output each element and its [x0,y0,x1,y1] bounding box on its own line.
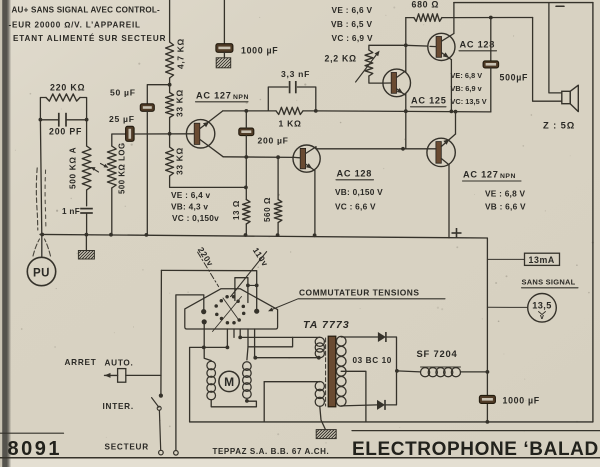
wire primary top feed [240,336,319,338]
transistor AC128 mid base lead [294,156,300,158]
wire emitter line AC127 [223,156,294,159]
label 500 K&#937; LOG [118,142,127,194]
transformer primary lower coil [315,382,324,407]
voltage text AC128 mid [335,187,383,212]
label 110V [251,246,271,269]
wire secondary bottom to diode [341,405,377,406]
resistor 680 &#937; [414,14,442,22]
svg-text:NPN: NPN [500,173,516,180]
label INTER [103,402,134,411]
label 680 &#937; [412,0,440,10]
wire choke right [461,371,488,373]
wire pot 500KA bottom [86,190,88,206]
wire AC128 top collector riser [453,3,455,34]
svg-text:VB: 6,9 v: VB: 6,9 v [451,84,483,93]
node pot LOG bus junction [109,233,113,237]
label 500 K&#937; A [69,147,78,189]
wire 560 to bus [277,223,279,236]
transistor AC127 emitter lead [200,140,223,157]
wire PU cable vertical [40,120,41,257]
transistor AC128 mid emitter lead [306,164,315,171]
wire right frame drop [592,3,594,422]
chassis ground 1000uF top [216,58,231,68]
wire 3.3nF stub left [268,87,288,111]
wire 220V dash-dot [198,252,219,287]
wire selector feed top [161,270,256,311]
svg-text:ELECTROPHONE ‘BALAD: ELECTROPHONE ‘BALAD [352,439,599,460]
svg-text:33 KΩ: 33 KΩ [175,89,185,117]
transistor AC128 top emitter arrow [443,52,449,57]
capacitor 25 uF electrolytic [126,126,135,141]
capacitor 500 uF electrolytic [483,61,499,68]
svg-text:VC : 6,6 V: VC : 6,6 V [335,202,376,212]
node input right [85,118,89,122]
svg-text:VB : 6,5 V: VB : 6,5 V [331,19,372,29]
label 220V [196,245,216,268]
wire 4.7K to 33K [169,78,171,93]
wire 1nF to bus [86,214,88,235]
commutateur wiper diagonal 2 [223,298,240,321]
node base divider AC127 [168,132,172,136]
commutateur inner link [246,284,259,288]
svg-text:AU+ SANS SIGNAL AVEC CONTROL-: AU+ SANS SIGNAL AVEC CONTROL- [12,6,161,15]
label 25 &#181;F [109,114,135,124]
choke SF 7204 [421,368,461,377]
transformer chassis ground [316,430,336,439]
svg-text:03 BC 10: 03 BC 10 [353,356,392,365]
label ARRET AUTO [65,358,134,368]
wire main bus [40,234,449,237]
wire 8091 box line [0,432,64,434]
svg-text:AUTO.: AUTO. [105,359,134,368]
svg-text:500 KΩ A: 500 KΩ A [69,147,78,189]
shield flare right at PU [45,239,51,256]
label 1 K&#937; [279,119,302,129]
wire 13mA tap [487,258,524,260]
wire bottom return [190,421,593,423]
note text line 3 [13,34,166,43]
node AC128 top emitter rail junction [450,110,454,114]
label AC 127 NPN output [463,170,522,182]
label AC 128 top [459,40,497,51]
label 2,2 K&#937; [325,54,357,64]
capacitor 1000 uF top [216,44,233,53]
label 33 K&#937; lower [175,147,185,175]
transformer secondary coil [336,336,346,406]
wire 33K upper to base node [169,118,171,135]
label 200 &#181;F [258,136,289,146]
svg-text:4,7 KΩ: 4,7 KΩ [176,38,186,69]
transistor AC128 top circle [428,33,455,60]
wire 25uF to pot LOG [112,134,125,146]
svg-text:Z : 5Ω: Z : 5Ω [543,120,575,131]
svg-text:COMMUTATEUR TENSIONS: COMMUTATEUR TENSIONS [299,288,419,298]
node AC125 rail junction [404,109,408,113]
node AC125 driver base junction [401,147,405,151]
svg-text:AC 128: AC 128 [337,169,373,179]
svg-text:500µF: 500µF [500,73,529,83]
ground bus chassis ground [78,251,94,260]
wire diode top to riser [386,337,396,371]
note text line 2 [9,21,141,30]
wire 560 top stub [277,157,279,199]
svg-text:VE : 6,4 v: VE : 6,4 v [171,190,211,200]
commutateur label leader [268,299,298,312]
voltage text AC127 output block [485,189,526,212]
transistor AC127 base bar [194,123,200,144]
switch arret auto symbol [105,369,126,383]
transistor AC125 emitter lead [397,89,406,95]
transistor AC127 first stage circle [186,120,214,148]
node 50uF junction [168,83,172,87]
wire base node to 33K lower [169,134,171,147]
node 560 top junction [276,155,280,159]
svg-text:SANS SIGNAL: SANS SIGNAL [522,278,576,287]
svg-text:VB : 6,6 V: VB : 6,6 V [485,202,526,212]
wire motor right coil feed [247,347,248,360]
resistor 13 &#937; [243,200,251,225]
resistor 220 K&#937; [46,94,80,101]
svg-text:25 µF: 25 µF [109,114,135,124]
wire 3.3nF stub right [297,87,315,111]
terminal secteur left [159,450,164,455]
svg-text:1000 µF: 1000 µF [503,396,540,406]
wire pot 2.2K top elbow [369,45,406,50]
resistor 560 &#937; [274,200,282,223]
wire top rail [454,2,593,4]
svg-text:M: M [224,375,234,389]
transistor AC127 output circle [427,138,455,166]
svg-text:VE : 6,8 V: VE : 6,8 V [485,189,526,199]
wire selector drop a to motor [204,346,228,348]
svg-text:33 KΩ: 33 KΩ [175,147,185,175]
wire speaker feed from top rail [549,3,562,93]
svg-text:200 PF: 200 PF [49,127,82,137]
wire selector drop c [254,329,256,358]
label AC 127 NPN first stage [196,91,249,102]
svg-text:NPN: NPN [233,94,249,101]
wire 680 left elbow [406,17,414,19]
wire bus extension to filter [449,238,487,372]
commutateur contact dots [214,295,245,325]
svg-text:v: v [540,314,544,321]
wire selector drop d to motor coil [248,329,293,347]
label Z : 5 ohm [543,120,575,131]
node selector drop a [226,346,230,350]
wire selector drop b2 [239,329,241,337]
pot 500KA wiper arrow [91,167,99,172]
svg-text:VB: 4,3 v: VB: 4,3 v [171,202,208,212]
wire electrophone top line [352,430,600,432]
commutateur inner U [235,278,248,303]
wire selector drop a [226,329,228,347]
shield dashes left of PU cable [36,168,46,230]
label 1000 uF top [241,46,278,56]
transistor AC125 collector lead [397,71,406,78]
commutateur left terminals [201,309,207,324]
potentiometer 500 K&#937; A [82,146,91,190]
wire 680 right to collector riser [442,17,454,19]
transistor AC128 top base lead [430,45,436,47]
svg-text:TA 7773: TA 7773 [303,319,350,331]
transistor AC127 output collector arrow [443,139,449,145]
node pot top junction [404,43,408,47]
wire 13ohm top stub [245,187,247,199]
svg-text:560 Ω: 560 Ω [263,197,272,222]
wire primary upper bottom tap [255,357,319,359]
svg-text:1000 µF: 1000 µF [241,46,278,56]
capacitor 1000 uF filter [479,395,495,403]
label minus speaker [556,5,564,7]
node AC127 output collector rail junction [454,110,458,114]
wire 13ohm to bus [245,224,247,235]
meter text [532,301,551,322]
svg-text:-EUR 20000 Ω/V. L’APPAREIL: -EUR 20000 Ω/V. L’APPAREIL [9,21,141,30]
wire AC128 mid emitter to bus [314,171,316,236]
wire secteur right riser [176,295,204,451]
capacitor 3,3 nF [290,81,296,93]
svg-text:TEPPAZ S.A. B.B. 67 A.CH.: TEPPAZ S.A. B.B. 67 A.CH. [213,447,330,456]
node AC128 mid emitter bus junction [313,233,317,237]
capacitor 200 PF [59,113,66,127]
wire primary lower drop [263,382,265,422]
wire pot LOG to bus [111,188,113,235]
commutateur wiper diagonal 1 [213,297,242,332]
svg-text:13,5: 13,5 [532,301,551,311]
svg-text:2,2 KΩ: 2,2 KΩ [325,54,357,64]
resistor 33 K&#937; upper [166,93,174,118]
label PU [33,268,50,280]
label 03 BC10 [353,356,392,365]
wire AC125 collector riser [405,18,407,149]
wire selector left terminal drop [204,322,211,361]
wire 4.7K top feed [169,0,171,42]
wire bottom edge line [0,457,600,459]
transistor AC128 top emitter lead [442,53,452,60]
label 4,7 K&#937; [176,38,186,69]
transistor AC125 emitter arrow [397,88,403,93]
label 13 &#937; [232,200,241,220]
wire arret auto to riser [126,374,161,376]
wire primary ground stem [320,406,326,429]
label plus bus [452,228,462,238]
svg-text:PU: PU [33,268,50,280]
node PU cable / bus junction [40,233,44,237]
transistor AC128 mid collector lead [306,147,316,154]
wire motor coils bottom U [211,400,256,407]
svg-text:VC: 13,5 V: VC: 13,5 V [451,97,487,106]
label 13mA box [525,253,560,265]
wire cap 200PF right stub [67,119,87,121]
wire 50uF top elbow [147,85,169,104]
svg-text:VB: 0,150 V: VB: 0,150 V [335,187,383,197]
node choke left junction [395,369,399,373]
capacitor 200 uF electrolytic [239,128,254,136]
wire AC128 top emitter drop [450,60,452,112]
potentiometer 500 K&#937; LOG [107,146,116,188]
wire driver rail y111 [316,111,491,112]
svg-text:AC 125: AC 125 [411,96,447,106]
wire cap 200PF left stub [40,119,57,121]
svg-text:VC : 0,150v: VC : 0,150v [172,213,219,223]
wire collector rail AC127 [223,110,276,112]
voltage text AC125 block [451,71,487,106]
transistor AC128 mid emitter arrow [306,163,312,168]
svg-text:1 nF: 1 nF [62,207,80,216]
commutateur right terminal [254,309,259,314]
svg-text:220 KΩ: 220 KΩ [50,83,85,93]
transistor AC127 collector lead [200,111,223,129]
wire output rail to speaker top [454,17,533,19]
label 8091 [8,438,63,460]
node 50uF bus junction [145,233,149,237]
transistor AC128 mid base bar [300,148,305,168]
label 3,3 nF [281,69,310,79]
resistor 33 K&#937; lower [166,147,174,176]
switch inter pivot [157,406,161,410]
motor left coil [207,361,216,400]
svg-text:VE: 6,8 V: VE: 6,8 V [451,71,483,80]
switch inter lever [152,398,159,408]
transistor AC128 top collector lead [442,34,454,42]
terminal secteur right [174,451,179,456]
wire primary lower top feed [264,381,320,383]
wire diode bottom to riser [386,371,397,405]
label 200 PF [49,127,82,137]
svg-text:ETANT ALIMENTÉ SUR SECTEUR: ETANT ALIMENTÉ SUR SECTEUR [13,34,166,43]
svg-text:SF 7204: SF 7204 [417,348,458,359]
svg-text:AC 127: AC 127 [463,170,499,180]
commutateur outline [185,289,278,329]
wire pot 2.2K bottom elbow [369,76,383,83]
diode top 0.3BC10 [378,332,386,342]
wire choke left [397,371,421,372]
node 13 ohm top [244,186,248,190]
wire speaker drop right [533,18,562,102]
transistor AC125 base lead [383,82,391,84]
svg-text:VC : 6,9 V: VC : 6,9 V [332,33,373,43]
svg-text:200 µF: 200 µF [258,136,289,146]
node inter switch top contact [159,394,163,398]
label ELECTROPHONE BALAD [352,439,599,460]
capacitor 1 nF [80,209,93,213]
label AC 125 [411,96,447,107]
wire 1000uF top stem [223,0,225,44]
svg-text:680 Ω: 680 Ω [412,0,440,10]
wire 200uF stem upper [245,111,247,128]
wire 1000uF top ground stem [223,52,225,58]
wire 25uF to base node [134,133,193,135]
transistor AC128 top base bar [436,37,441,58]
wire pot 500KA top [86,120,88,146]
label 1000 uF bottom [503,396,540,406]
node 13ohm bus junction [244,233,248,237]
node 500uF top junction [489,16,493,20]
choke SF 7204 top line [421,366,461,368]
transformer TA7773 core dashed line [325,338,327,406]
motor right coil [243,362,252,399]
speaker [562,85,579,111]
transistor AC127 output collector lead [441,134,455,147]
node 200uF top [244,109,248,113]
wire mains left riser [160,270,163,395]
svg-text:1 KΩ: 1 KΩ [279,119,302,129]
potentiometer 2,2 K&#937; [365,50,373,76]
wire inter to secteur terminal [159,410,160,450]
label 220 K&#937; [50,83,85,93]
svg-text:SECTEUR: SECTEUR [105,443,149,452]
wire 33K lower elbow to 13ohm [170,176,246,187]
svg-text:AC 128: AC 128 [460,40,496,50]
wire 200uF stem lower [245,136,247,188]
capacitor 50 uF electrolytic [140,104,154,112]
voltage text VE VB VC first stage [171,190,219,223]
transistor AC128 mid circle [293,145,320,172]
transistor AC125 base bar [391,73,396,94]
svg-text:INTER.: INTER. [103,402,134,411]
node 3.3nF right junction [314,109,318,113]
wire 500uF top stem [490,18,492,62]
label SECTEUR [105,443,149,452]
node selector drop b [238,336,242,340]
motor M circle [219,371,239,391]
node 1nF bus junction [85,233,89,237]
node input left [39,118,43,122]
wire selector drop b [233,329,235,337]
wire secondary top to diode [341,336,378,338]
svg-text:13mA: 13mA [529,255,555,265]
wire base rail AC128 top [406,45,436,46]
label COMMUTATEUR TENSIONS [299,288,446,299]
transistor AC127 output emitter lead [441,159,449,165]
wire outer loop left [190,347,204,422]
node filter top junction [486,370,490,374]
transformer primary upper coil [315,337,324,358]
wire center tap [341,371,366,422]
wire 1K to rail [303,110,316,112]
svg-text:500 KΩ LOG: 500 KΩ LOG [118,142,127,194]
note text line 1 [12,6,161,15]
svg-text:AC 127: AC 127 [196,91,232,101]
transistor AC127 output base lead [403,148,436,150]
label 560 &#937; [263,197,272,222]
transformer TA7773 core bar [328,336,336,407]
pot 2.2K arrow line [356,51,380,82]
label 33 K&#937; upper [175,89,185,117]
svg-text:8091: 8091 [8,438,63,460]
transistor AC125 circle [383,69,411,97]
transistor AC127 output base bar [436,142,441,164]
svg-text:ARRET: ARRET [65,358,97,367]
node outer loop top [202,346,206,350]
label SANS SIGNAL [522,278,579,288]
svg-text:50 µF: 50 µF [110,88,136,98]
node bottom return junction [486,420,490,424]
label SF 7204 [417,348,458,359]
wire 220K loop left riser [40,98,46,120]
wire 500uF bottom stem [490,68,492,112]
wire AC127 output emitter drop [448,165,450,238]
node motor right coil bottom [245,399,249,403]
wire AC127 output collector riser [455,112,457,134]
node 560 bus junction [276,233,280,237]
label TEPPAZ [213,447,330,456]
wire AC128 mid collector to driver rail [316,147,403,149]
label 1 nF [62,207,80,216]
label 50 &#181;F [110,88,136,98]
node 200uF emitter junction [244,155,248,159]
label 500 &#181;F [500,73,529,83]
